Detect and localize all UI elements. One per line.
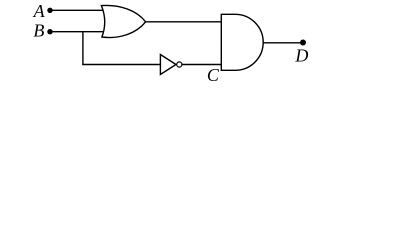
OR gate U1 (101, 5, 145, 37)
NOT gate (inverter) triangle (160, 55, 176, 75)
wire AND output to D (263, 42, 303, 44)
wire B branch vertical down (82, 32, 84, 65)
wire B to OR gate input (50, 31, 106, 33)
svg-text:B: B (33, 21, 44, 41)
node B terminal dot (47, 29, 52, 34)
wire branch to NOT gate input (82, 64, 160, 66)
wire OR output to AND gate top input (146, 21, 222, 23)
svg-text:C: C (207, 65, 220, 85)
AND gate U2 (221, 14, 263, 70)
svg-text:A: A (33, 1, 46, 21)
wire NOT output to AND gate bottom input (182, 64, 221, 66)
node D terminal dot (300, 40, 306, 46)
svg-text:D: D (294, 45, 308, 65)
wire A to OR gate input (50, 9, 105, 11)
NOT gate bubble (177, 62, 182, 67)
node A terminal dot (47, 8, 52, 13)
